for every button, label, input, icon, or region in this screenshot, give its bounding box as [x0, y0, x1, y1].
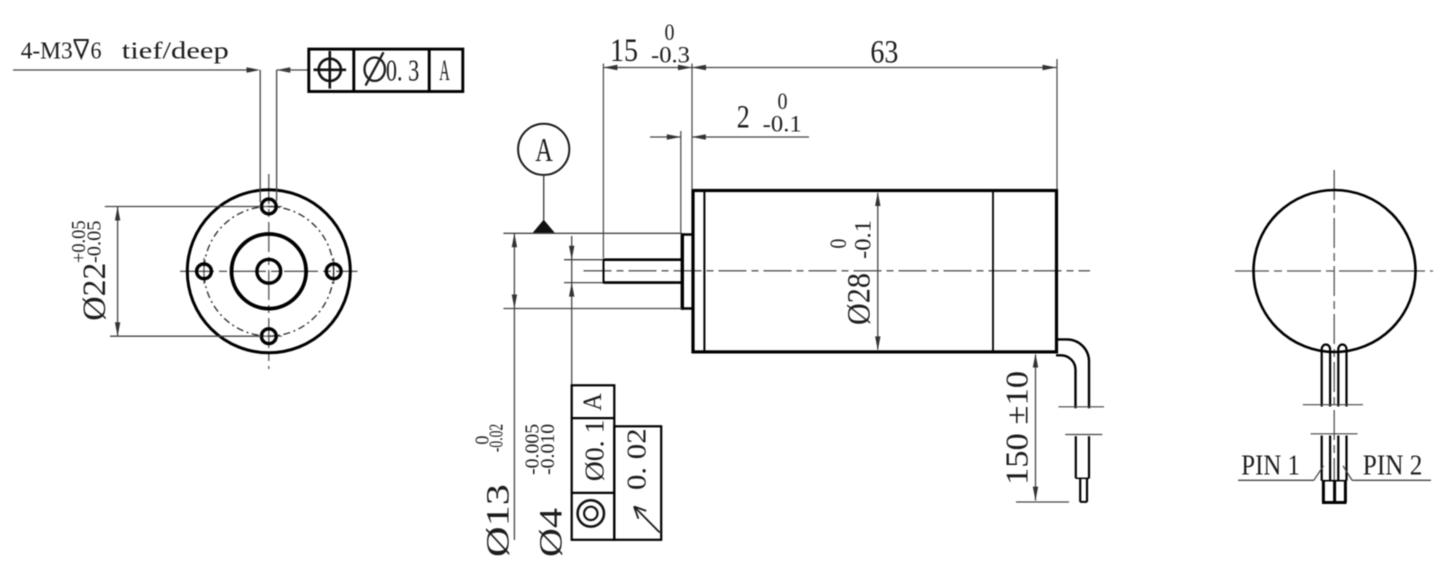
svg-text:63: 63	[870, 35, 898, 71]
svg-text:A: A	[439, 54, 450, 87]
svg-text:4-M3: 4-M3	[21, 39, 73, 65]
svg-text:Ø22: Ø22	[77, 263, 113, 321]
svg-text:PIN 2: PIN 2	[1363, 449, 1423, 481]
svg-text:Ø28: Ø28	[842, 273, 878, 325]
svg-text:150 ±10: 150 ±10	[999, 371, 1035, 485]
svg-text:0: 0	[665, 20, 675, 45]
svg-text:-0.1: -0.1	[763, 111, 802, 136]
svg-text:2: 2	[737, 100, 750, 136]
svg-text:0: 0	[778, 89, 788, 114]
svg-text:-0.02: -0.02	[486, 424, 508, 452]
svg-text:0. 3: 0. 3	[386, 52, 419, 87]
svg-text:0: 0	[826, 239, 851, 249]
svg-text:Ø13: Ø13	[480, 484, 516, 557]
svg-text:-0.1: -0.1	[851, 220, 876, 259]
svg-text:tief/deep: tief/deep	[122, 39, 229, 65]
svg-text:Ø4: Ø4	[533, 508, 569, 557]
svg-text:-0.010: -0.010	[537, 424, 559, 475]
svg-text:A: A	[535, 132, 553, 169]
svg-text:0. 02: 0. 02	[622, 428, 652, 490]
svg-text:Ø0. 1: Ø0. 1	[580, 420, 610, 482]
svg-text:A: A	[578, 393, 607, 411]
svg-text:-0.3: -0.3	[651, 43, 690, 68]
svg-text:15: 15	[610, 33, 638, 69]
svg-text:6: 6	[91, 39, 102, 65]
svg-text:PIN 1: PIN 1	[1241, 449, 1300, 481]
svg-text:-0.05: -0.05	[84, 221, 106, 264]
